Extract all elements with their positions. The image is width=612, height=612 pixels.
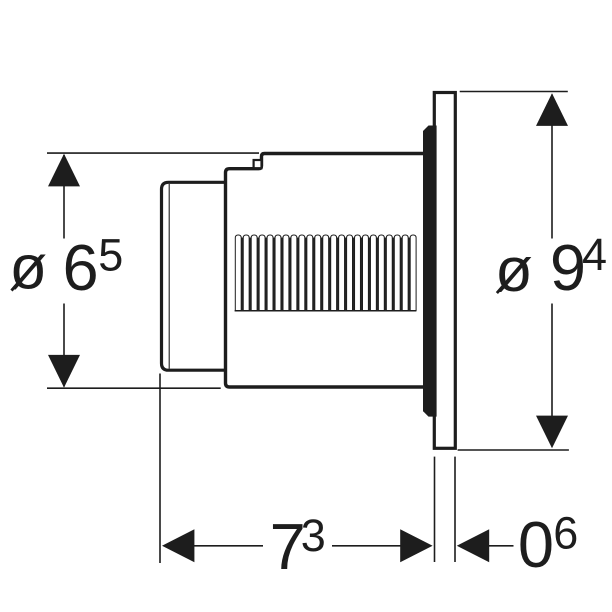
svg-text:9: 9 <box>550 231 586 304</box>
svg-text:3: 3 <box>301 510 326 561</box>
dim ext line top-left (body top) <box>47 152 259 154</box>
wall plate flange <box>434 93 455 449</box>
svg-text:6: 6 <box>553 508 578 559</box>
arrow left 06 <box>457 529 489 562</box>
dim line 73 <box>193 545 263 547</box>
svg-text:4: 4 <box>582 229 607 280</box>
svg-text:5: 5 <box>98 229 123 280</box>
valve body <box>226 154 425 388</box>
svg-text:ø: ø <box>9 234 47 303</box>
dim ext line top-right (flange top) <box>460 91 568 93</box>
diameter slash right <box>497 258 527 293</box>
svg-text:6: 6 <box>63 231 99 304</box>
protection sleeve (dark band) <box>423 126 437 417</box>
arrow down left <box>48 355 80 388</box>
dim line 06 <box>489 545 514 547</box>
ext line bottom left vertical (cap left edge) <box>159 374 161 564</box>
arrow up right <box>536 93 568 126</box>
svg-text:0: 0 <box>518 508 554 581</box>
svg-text:ø: ø <box>495 236 533 305</box>
dim ext line bottom-right (flange bottom) <box>458 449 569 451</box>
arrow down right <box>536 416 568 449</box>
cap inner edge line <box>168 184 170 369</box>
arrow right 73 <box>400 529 432 562</box>
arrow up left <box>48 154 80 187</box>
dim line left (o65) <box>63 155 65 239</box>
dim line right (o94) <box>551 95 553 239</box>
arrow left 73 <box>162 529 194 562</box>
diameter slash left <box>12 256 42 291</box>
ribbed bellows section <box>235 235 417 311</box>
cover cap (left cylinder) <box>162 182 231 370</box>
ext lines below flange <box>434 457 436 562</box>
step notch (small square) <box>254 160 262 168</box>
dim ext line bottom-left (body bottom) <box>47 387 221 389</box>
